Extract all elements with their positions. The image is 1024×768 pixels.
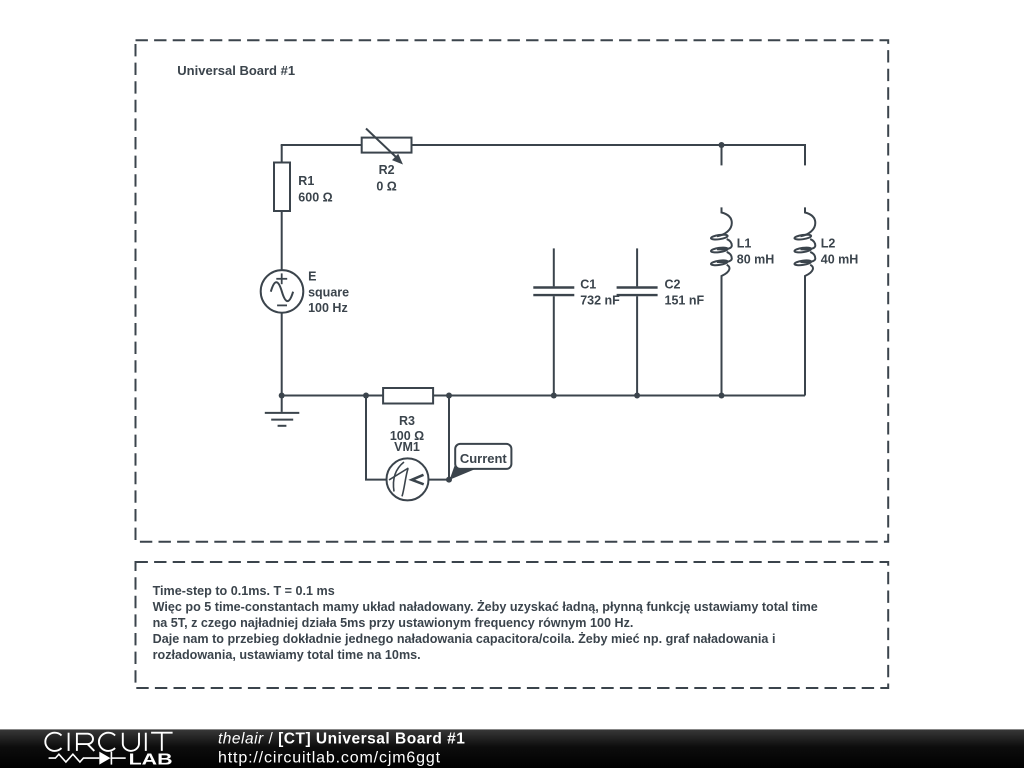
svg-text:square: square	[308, 285, 349, 299]
wire VM1 right branch	[428, 396, 449, 480]
svg-text:Daje nam to przebieg dokładnie: Daje nam to przebieg dokładnie jednego n…	[153, 631, 776, 646]
svg-text:L1: L1	[737, 237, 752, 251]
svg-text:R2: R2	[379, 163, 395, 177]
svg-text:151 nF: 151 nF	[665, 293, 705, 307]
svg-text:E: E	[308, 270, 316, 284]
wire top-left vertical	[281, 145, 283, 163]
schematic frame box	[136, 40, 889, 542]
svg-text:http://circuitlab.com/cjm6ggt: http://circuitlab.com/cjm6ggt	[218, 750, 441, 767]
svg-text:L2: L2	[821, 237, 836, 251]
resistor R2 (variable)	[362, 129, 412, 165]
node R3 left	[363, 393, 369, 399]
callout Current	[450, 444, 512, 480]
resistor R3	[383, 388, 433, 404]
notes frame box	[136, 562, 889, 688]
svg-text:732 nF: 732 nF	[580, 293, 620, 307]
node L1 bottom	[719, 393, 725, 399]
wire top horizontal left	[281, 144, 362, 146]
svg-text:VM1: VM1	[394, 440, 420, 454]
svg-text:rozładowania, ustawiamy total: rozładowania, ustawiamy total time na 10…	[153, 648, 421, 662]
node VM1 right	[446, 477, 452, 483]
svg-text:C2: C2	[665, 278, 681, 292]
capacitor C2	[617, 248, 658, 395]
ground	[265, 396, 300, 426]
svg-text:Universal Board #1: Universal Board #1	[177, 63, 295, 78]
wire bottom horizontal	[282, 395, 805, 397]
ammeter VM1	[387, 458, 429, 500]
svg-text:0 Ω: 0 Ω	[376, 179, 396, 193]
logo resistor-diode art	[49, 752, 126, 765]
svg-text:R1: R1	[298, 174, 314, 188]
inductor L2	[794, 207, 815, 395]
wire L1 top stub	[721, 145, 723, 165]
node C1 bottom	[551, 393, 557, 399]
svg-text:80 mH: 80 mH	[737, 252, 775, 266]
svg-text:na 5T, z czego najładniej dzia: na 5T, z czego najładniej działa 5ms prz…	[153, 616, 634, 630]
svg-text:Current: Current	[460, 451, 508, 466]
node ground junction	[279, 393, 285, 399]
svg-text:100 Hz: 100 Hz	[308, 301, 348, 315]
svg-text:40 mH: 40 mH	[821, 252, 859, 266]
svg-text:C1: C1	[580, 278, 596, 292]
wire L2 top stub	[804, 144, 806, 165]
svg-text:600 Ω: 600 Ω	[298, 190, 332, 204]
node R3 right	[446, 393, 452, 399]
wire top horizontal right	[412, 144, 807, 146]
voltage source E	[261, 270, 304, 313]
junction nodes	[279, 142, 725, 483]
wire VM1 left branch	[366, 396, 387, 480]
node C2 bottom	[634, 393, 640, 399]
svg-text:R3: R3	[399, 414, 415, 428]
svg-text:Więc po 5 time-constantach mam: Więc po 5 time-constantach mamy układ na…	[153, 599, 818, 614]
wire E to ground node	[281, 313, 283, 396]
svg-text:thelair / [CT] Universal Board: thelair / [CT] Universal Board #1	[218, 730, 465, 747]
notes text	[153, 584, 818, 662]
logo CIRCUIT	[45, 733, 172, 751]
svg-text:Time-step to 0.1ms. T = 0.1 ms: Time-step to 0.1ms. T = 0.1 ms	[153, 584, 335, 598]
resistor R1	[274, 163, 290, 212]
capacitor C1	[533, 248, 574, 395]
inductor L1	[711, 207, 732, 395]
node L1 top	[719, 142, 725, 148]
svg-text:LAB: LAB	[129, 752, 173, 768]
wire R1 to E	[281, 211, 283, 270]
